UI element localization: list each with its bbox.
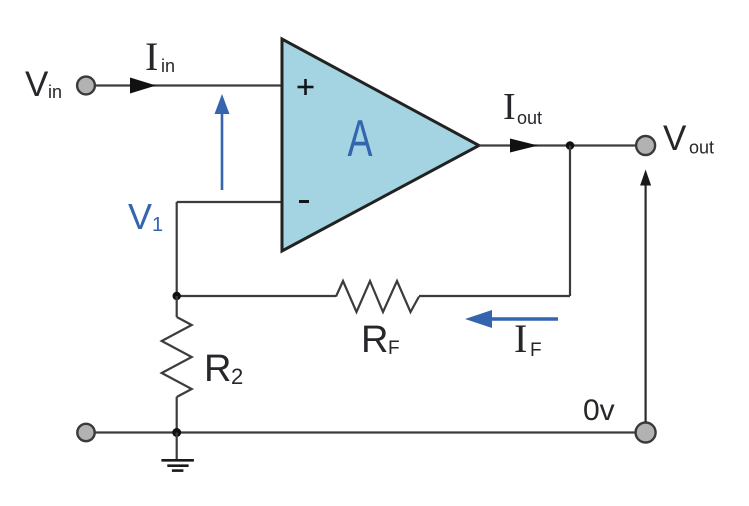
junction node output: [566, 141, 575, 150]
current arrow Iin: [130, 78, 156, 94]
svg-text:V: V: [128, 196, 152, 237]
ground: [176, 433, 178, 460]
resistor R2: [176, 296, 178, 317]
junction node feedback: [173, 292, 181, 300]
svg-text:V: V: [25, 65, 49, 104]
op-amp A: [282, 39, 479, 251]
wire inverting input: [177, 201, 282, 203]
svg-text:A: A: [348, 109, 374, 168]
svg-text:in: in: [161, 56, 175, 76]
svg-text:2: 2: [231, 364, 243, 389]
sense arrow Vout: [644, 185, 646, 422]
blue sense arrow V1: [221, 112, 224, 190]
wire feedback left lead: [177, 295, 336, 297]
svg-text:1: 1: [152, 214, 163, 236]
svg-text:out: out: [517, 108, 542, 128]
wire output: [479, 144, 636, 146]
svg-text:R: R: [204, 348, 231, 390]
terminal bottom-right: [636, 423, 656, 443]
resistor RF: [336, 281, 419, 312]
svg-text:I: I: [503, 86, 516, 128]
current arrow Iout: [510, 139, 538, 153]
output terminal Vout: [636, 136, 655, 155]
current arrow IF blue: [490, 317, 558, 320]
svg-text:F: F: [388, 338, 400, 359]
svg-text:in: in: [48, 82, 62, 102]
svg-text:I: I: [145, 34, 158, 79]
bottom rail 0v: [95, 431, 636, 433]
pin -: [299, 200, 309, 203]
wire V1 vertical: [176, 202, 178, 296]
svg-text:V: V: [663, 119, 687, 158]
wire feedback right lead: [419, 295, 570, 297]
wire feedback drop: [569, 146, 571, 297]
svg-text:I: I: [514, 316, 527, 361]
wire input to op-amp +: [95, 84, 282, 86]
input terminal Vin: [77, 77, 95, 95]
svg-text:0v: 0v: [583, 394, 615, 427]
pin +: [298, 86, 314, 89]
junction node ground: [172, 428, 181, 437]
svg-text:F: F: [530, 340, 542, 361]
svg-text:R: R: [361, 319, 388, 361]
terminal bottom-left: [77, 424, 94, 441]
svg-text:out: out: [689, 138, 714, 158]
